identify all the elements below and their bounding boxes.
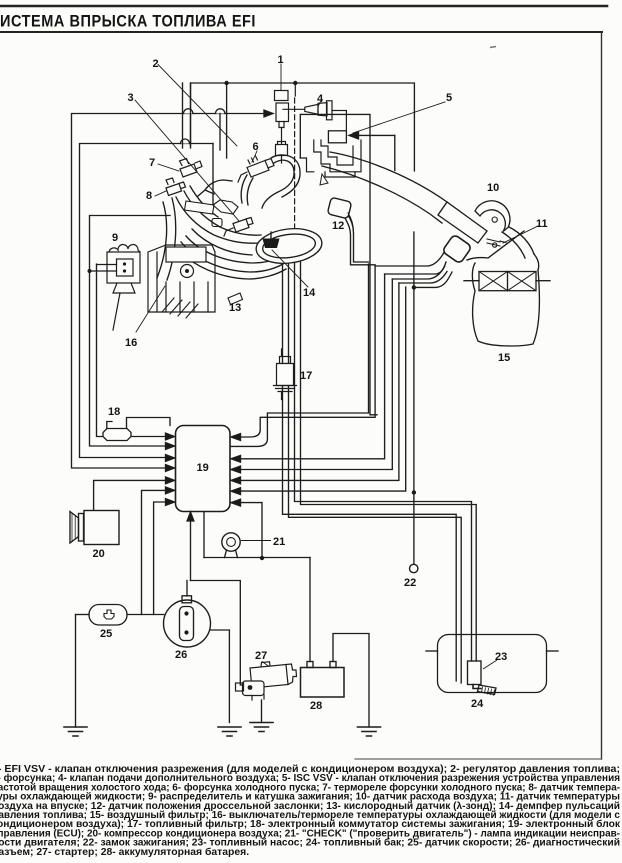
ECU right pin wire to x406 up [240, 287, 406, 491]
fuel tank 24 [438, 635, 547, 693]
svg-text:4: 4 [317, 93, 324, 105]
starter 27 [236, 662, 297, 701]
svg-text:20: 20 [93, 548, 105, 560]
leader 16 [136, 286, 165, 332]
line down to diag connector [186, 581, 188, 597]
ECU right pin wire to lamp net [240, 503, 262, 558]
throttle body oval [254, 225, 324, 267]
lamp 21 circuit [203, 512, 205, 558]
svg-text:6: 6 [253, 141, 259, 153]
ECU right pin wire to x392 up [240, 279, 392, 470]
svg-text:19: 19 [197, 462, 209, 474]
sensor stub y279 [392, 267, 444, 280]
battery 28 [301, 668, 345, 698]
thermo valve 7 [180, 159, 203, 178]
frame right edge [601, 32, 603, 759]
small flag under ISC [320, 174, 328, 185]
CHECK lamp 21 [222, 533, 240, 551]
leader 3 [135, 100, 239, 221]
filter element [479, 272, 536, 291]
title underline / frame top [0, 31, 602, 33]
coil 9 [90, 244, 141, 330]
fuel pump 23 [468, 661, 482, 685]
svg-text:2: 2 [153, 58, 159, 70]
manifold runners [186, 236, 279, 263]
svg-text:8: 8 [146, 190, 152, 202]
EFI VSV 1 body [275, 91, 289, 164]
leader 7 [158, 164, 179, 171]
svg-text:15: 15 [498, 352, 510, 364]
svg-text:28: 28 [310, 700, 322, 712]
verticals near x182 x190 x220 x227 [182, 83, 184, 148]
horn 10 [475, 201, 510, 232]
svg-text:5: 5 [446, 92, 452, 104]
svg-text:17: 17 [300, 370, 312, 382]
title top rule [0, 5, 607, 8]
hop bumps on loop A line [184, 109, 193, 114]
ISC VSV 5 [328, 131, 346, 143]
loop A wire to regulator arrow [72, 114, 272, 469]
svg-text:18: 18 [108, 406, 120, 418]
svg-text:13: 13 [229, 302, 241, 314]
svg-text:27: 27 [255, 650, 267, 662]
leader 2 [158, 65, 237, 147]
loop B wire [80, 144, 214, 458]
svg-text:16: 16 [125, 337, 137, 349]
meter to filter hose [509, 227, 534, 254]
main hose [330, 152, 466, 216]
cold start injector 6 [238, 156, 274, 182]
svg-text:1: 1 [278, 54, 284, 66]
battery plus feed [309, 558, 311, 662]
svg-text:разъем; 27- стартер; 28- аккум: разъем; 27- стартер; 28- аккумуляторная … [0, 846, 249, 858]
compressor 20 wire [94, 480, 165, 510]
coolant pipes from 7/8 down right [176, 197, 258, 243]
loop C wire [90, 216, 171, 447]
svg-text:9: 9 [112, 232, 118, 244]
leader 14 [272, 250, 308, 287]
svg-text:7: 7 [149, 157, 155, 169]
ECU top-entry wire T1 from sensors [240, 266, 375, 437]
ignition module 18 [103, 429, 131, 441]
ignition switch 22 circle [410, 564, 418, 572]
junction dots on y83 [224, 81, 228, 85]
leader 11 [503, 226, 538, 243]
ECU right pin wire to x384 up [240, 274, 385, 459]
EFI VSV 1 : leader [280, 64, 282, 90]
svg-text:12: 12 [332, 220, 344, 232]
26 right lead to ground [210, 630, 229, 723]
oxygen sensor 13 [228, 293, 243, 305]
frame bottom [355, 758, 602, 760]
engine block [148, 245, 215, 312]
leader 21 [241, 540, 271, 542]
svg-text:10: 10 [487, 182, 499, 194]
leader 6 [252, 151, 257, 162]
fuel filter 17 [274, 349, 297, 400]
air filter housing [467, 231, 539, 270]
svg-text:26: 26 [175, 649, 187, 661]
valve cover / head outline [213, 200, 238, 214]
fuel hoses: supply pair [283, 262, 457, 681]
svg-text:24: 24 [471, 698, 484, 710]
diagnostic connector 26 [164, 600, 211, 647]
injector 3 [224, 218, 253, 237]
ground under speed sensor 25 [64, 727, 87, 736]
ECU power arrow from below [190, 516, 192, 581]
svg-text:23: 23 [495, 651, 507, 663]
svg-text:22: 22 [404, 577, 416, 589]
fuel rail bar [185, 201, 215, 214]
svg-text:11: 11 [536, 218, 548, 230]
steep runner to block [157, 202, 167, 278]
svg-text:СИСТЕМА ВПРЫСКА ТОПЛИВА EFI: СИСТЕМА ВПРЫСКА ТОПЛИВА EFI [0, 13, 256, 31]
comp12 wire verticals [348, 215, 369, 262]
ECU box 19 [176, 426, 231, 512]
sensor wire horiz y274 [385, 262, 446, 274]
ECU top-entry wire T2 from sensor 12 [231, 264, 369, 446]
exhaust pipes [162, 298, 198, 318]
ground under starter 27 [250, 723, 273, 732]
idle hose loop right of 6 [262, 160, 294, 208]
TPS dark box [442, 234, 472, 264]
sensor wire to dot y287 [414, 272, 452, 287]
damper 14 [263, 239, 280, 249]
dashed line [294, 83, 296, 96]
ECU right pin wire to x399 up [240, 283, 399, 480]
compressor 20 [84, 511, 119, 545]
air valve 4 [283, 101, 346, 131]
leader 23 [483, 660, 497, 669]
junction dots [412, 285, 416, 289]
svg-text:3: 3 [128, 92, 134, 104]
thermo valve 8 [166, 178, 186, 196]
loop D wire from coil [97, 264, 166, 437]
hose from 6 down [241, 175, 247, 203]
wire x153 to ECU [154, 502, 165, 615]
svg-text:14: 14 [303, 287, 316, 299]
leader 5 [353, 102, 445, 133]
ISC staircase passages [300, 140, 361, 177]
26 left lead to 25 [127, 614, 164, 616]
box around ISC [300, 114, 377, 414]
ground under battery 28 [358, 727, 381, 736]
fuel hoses: return pair [295, 255, 472, 661]
ignition switch line [413, 232, 415, 564]
ground under diagnostic connector 26 [218, 727, 241, 736]
leader 8 [155, 191, 166, 196]
inner engine box [191, 83, 415, 171]
label4 tick [319, 102, 321, 106]
speed sensor 25 [89, 605, 127, 626]
svg-text:25: 25 [100, 628, 112, 640]
meter body [438, 202, 487, 243]
wire x141 to ECU [142, 490, 166, 614]
svg-text:21: 21 [273, 536, 285, 548]
sensor 11 on meter [487, 239, 506, 247]
comp 12 [327, 197, 351, 219]
